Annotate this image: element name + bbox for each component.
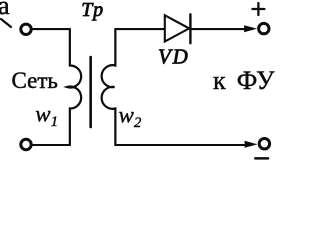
arrowhead bottom right: [245, 141, 258, 148]
diode VD cathode bar: [189, 14, 191, 43]
terminal X1 top-left: [21, 24, 31, 34]
label + plus: [252, 3, 264, 15]
wire top-left horizontal: [33, 28, 70, 30]
transformer T1 primary winding w1: [67, 29, 81, 145]
transformer core: [89, 57, 92, 127]
terminal − bottom right: [259, 139, 269, 149]
svg-text:a: a: [0, 0, 10, 20]
wire secondary top to diode: [115, 28, 164, 30]
svg-text:к ФУ: к ФУ: [213, 66, 275, 95]
wire diode to plus terminal: [190, 28, 246, 30]
terminal X2 bottom-left: [21, 139, 31, 149]
svg-text:VD: VD: [158, 45, 190, 69]
label − minus: [255, 157, 268, 160]
terminal + top right: [259, 23, 269, 33]
wire secondary bottom: [115, 144, 246, 146]
wire bottom-left horizontal: [33, 144, 70, 146]
diode VD anode triangle: [165, 15, 189, 41]
svg-text:Сеть: Сеть: [12, 68, 58, 93]
arrowhead top right: [244, 25, 257, 32]
svg-text:Tp: Tp: [81, 0, 104, 21]
transformer secondary winding w2: [102, 29, 116, 145]
terminal lead diagonal: [1, 19, 11, 27]
